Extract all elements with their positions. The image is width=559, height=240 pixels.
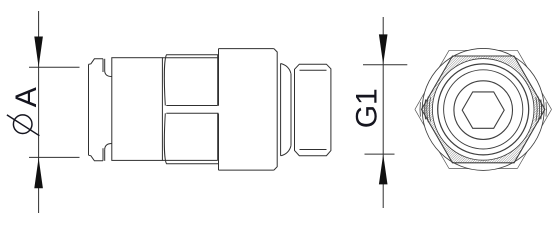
svg-text:G1: G1 <box>351 88 384 128</box>
svg-text:A: A <box>10 87 43 107</box>
